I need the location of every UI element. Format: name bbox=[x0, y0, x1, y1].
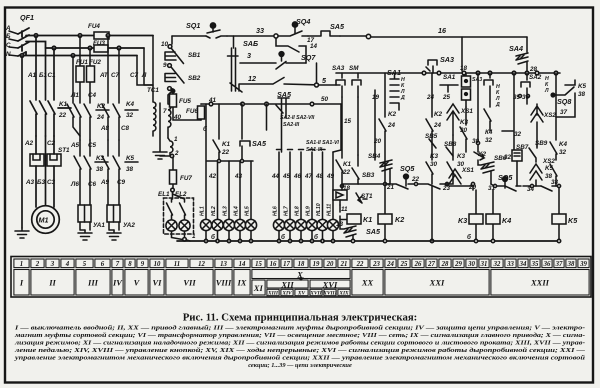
svg-text:QF1: QF1 bbox=[20, 13, 34, 22]
svg-text:управление электромагнитом мех: управление электромагнитом механического… bbox=[14, 355, 586, 362]
wire 12 bbox=[239, 78, 315, 92]
svg-text:7: 7 bbox=[116, 261, 120, 268]
svg-text:30: 30 bbox=[430, 161, 438, 168]
pedal SA5 bottom bbox=[340, 223, 356, 241]
svg-text:K3: K3 bbox=[430, 153, 439, 160]
svg-text:38: 38 bbox=[578, 91, 586, 98]
svg-text:K3: K3 bbox=[460, 119, 469, 126]
node 5 bbox=[315, 63, 341, 87]
svg-text:SA5: SA5 bbox=[252, 139, 267, 148]
svg-text:АТ: АТ bbox=[99, 72, 109, 79]
phase input B bbox=[9, 39, 18, 41]
svg-text:FU3: FU3 bbox=[93, 40, 105, 47]
caption body bbox=[14, 325, 586, 370]
svg-text:32: 32 bbox=[559, 149, 567, 156]
wire 3 bbox=[240, 62, 306, 64]
svg-text:I — выключатель вводной; II, X: I — выключатель вводной; II, XX — привод… bbox=[14, 325, 585, 332]
breaker QF1 bbox=[18, 28, 29, 56]
zone number cell 38 bbox=[566, 259, 576, 268]
button SB9 bbox=[529, 146, 537, 162]
svg-text:33: 33 bbox=[506, 261, 514, 268]
zone number cell 11 bbox=[166, 259, 188, 268]
svg-text:38: 38 bbox=[126, 166, 134, 173]
node junction 33 bbox=[274, 34, 278, 38]
zone number cell 17 bbox=[281, 259, 292, 268]
zone number cell 1 bbox=[14, 259, 29, 268]
svg-text:9: 9 bbox=[163, 62, 167, 69]
contact K4 32 right bbox=[550, 73, 557, 160]
svg-text:SQ7: SQ7 bbox=[301, 53, 316, 62]
svg-text:K3: K3 bbox=[458, 216, 467, 225]
zone cell IV bbox=[112, 270, 123, 296]
svg-text:SA5: SA5 bbox=[330, 22, 345, 31]
svg-text:38: 38 bbox=[96, 166, 104, 173]
svg-text:HL7: HL7 bbox=[284, 205, 290, 216]
fuse FU2 bbox=[87, 48, 95, 103]
svg-text:10: 10 bbox=[161, 41, 169, 48]
svg-text:HL6: HL6 bbox=[273, 206, 279, 216]
svg-text:38: 38 bbox=[551, 179, 559, 186]
transformer TC1 secondary bbox=[168, 91, 172, 138]
svg-text:SA5: SA5 bbox=[277, 90, 292, 99]
zone number cell 4 bbox=[61, 259, 74, 268]
svg-text:K2: K2 bbox=[388, 111, 397, 118]
svg-text:8: 8 bbox=[128, 261, 132, 268]
contactor K1 main contacts bbox=[30, 101, 71, 136]
zone cell VII bbox=[166, 270, 213, 296]
svg-text:14: 14 bbox=[310, 43, 318, 50]
wire HL6 bbox=[277, 150, 282, 220]
svg-text:50: 50 bbox=[321, 96, 329, 103]
wire HL8 bbox=[299, 150, 304, 220]
svg-text:XS1: XS1 bbox=[461, 167, 474, 174]
wire HL11 bbox=[332, 152, 334, 219]
zone number cell 30 bbox=[466, 259, 477, 268]
zone number cell 20 bbox=[324, 259, 336, 268]
button SB3 bbox=[342, 155, 359, 184]
svg-text:XVII: XVII bbox=[309, 291, 322, 297]
svg-text:K1: K1 bbox=[222, 141, 231, 148]
svg-text:2: 2 bbox=[174, 150, 179, 157]
contact K3 30 a bbox=[447, 135, 454, 184]
node 29 bbox=[449, 182, 475, 190]
transformer TC1 primary bbox=[144, 85, 156, 136]
svg-text:секции; 1...39 — цепи электрич: секции; 1...39 — цепи электрические bbox=[248, 362, 352, 369]
wire HL3 bbox=[228, 161, 230, 219]
zone number cell 9 bbox=[137, 259, 148, 268]
svg-text:K2: K2 bbox=[395, 215, 404, 224]
contactor K2 main contacts bbox=[74, 104, 109, 140]
contactor K4 main contacts bbox=[102, 104, 138, 140]
svg-text:A2: A2 bbox=[24, 140, 34, 147]
lamp EL2 bbox=[179, 220, 190, 231]
ground YA2 bbox=[107, 230, 121, 240]
transformer T1 lighting winding bbox=[168, 138, 173, 156]
svg-text:6: 6 bbox=[101, 261, 105, 268]
labels right control bbox=[425, 65, 587, 241]
svg-text:32: 32 bbox=[504, 154, 512, 161]
svg-text:VIII: VIII bbox=[216, 278, 232, 288]
svg-text:SQ8: SQ8 bbox=[557, 97, 571, 106]
svg-text:24: 24 bbox=[426, 94, 435, 101]
lamp HL10 bbox=[317, 219, 328, 241]
wire SA3 down pair bbox=[342, 97, 358, 158]
wire HL7 bbox=[288, 150, 293, 220]
svg-text:K1: K1 bbox=[343, 161, 352, 168]
svg-text:36: 36 bbox=[543, 261, 551, 268]
selector SA6 column bbox=[228, 36, 243, 92]
svg-text:24: 24 bbox=[386, 261, 394, 268]
fuse FU4 bbox=[94, 32, 109, 39]
node junction 16 bbox=[366, 34, 370, 38]
zone number cell 10 bbox=[150, 259, 164, 268]
svg-text:C6: C6 bbox=[88, 181, 97, 188]
svg-text:M1: M1 bbox=[39, 216, 49, 225]
lamp switch EL2 bbox=[173, 194, 186, 220]
svg-text:30: 30 bbox=[472, 138, 480, 145]
svg-text:SB8: SB8 bbox=[444, 141, 457, 148]
svg-text:SB5: SB5 bbox=[425, 133, 438, 140]
svg-text:1: 1 bbox=[192, 233, 196, 240]
node 2 ground link bbox=[160, 154, 174, 157]
zone number cell 22 bbox=[352, 259, 368, 268]
svg-text:SB1: SB1 bbox=[188, 52, 201, 59]
svg-text:C8: C8 bbox=[121, 125, 130, 132]
selector contact SA3 left bbox=[336, 73, 345, 97]
zone cell VI bbox=[150, 270, 164, 296]
svg-text:XS2: XS2 bbox=[543, 112, 556, 119]
wire EL to bus bbox=[172, 231, 191, 241]
wire C7 drop bbox=[137, 36, 153, 86]
zone cell XII bbox=[267, 280, 308, 288]
svg-text:XIX: XIX bbox=[338, 291, 349, 297]
zone cell XX bbox=[352, 270, 383, 296]
wire A2-A3 bbox=[36, 136, 54, 207]
svg-text:HL10: HL10 bbox=[316, 203, 322, 216]
svg-text:C: C bbox=[6, 42, 11, 49]
svg-text:ST1: ST1 bbox=[58, 147, 70, 154]
svg-text:20: 20 bbox=[373, 138, 382, 145]
lamp HL9 bbox=[306, 219, 317, 241]
svg-text:SA1-II SA1-VI: SA1-II SA1-VI bbox=[306, 140, 339, 146]
svg-text:35: 35 bbox=[531, 261, 539, 268]
thermal contact ST1 bbox=[356, 193, 367, 203]
zone number cell 25 bbox=[398, 259, 410, 268]
zone number cell 2 bbox=[31, 259, 44, 268]
svg-text:19: 19 bbox=[372, 94, 380, 101]
svg-text:K5: K5 bbox=[126, 155, 135, 162]
wire C1 drop bbox=[53, 48, 55, 100]
motor M1 bbox=[32, 206, 60, 234]
svg-text:18: 18 bbox=[298, 261, 305, 268]
svg-text:21: 21 bbox=[340, 261, 348, 268]
plug XS1 lower bbox=[449, 169, 461, 184]
selector SA1 bbox=[390, 74, 399, 110]
switch SQ7 branch bbox=[276, 38, 306, 63]
svg-text:36: 36 bbox=[522, 94, 530, 101]
svg-text:18: 18 bbox=[460, 65, 468, 72]
svg-text:C1: C1 bbox=[48, 72, 57, 79]
svg-text:SA2: SA2 bbox=[529, 74, 542, 81]
zone cell II bbox=[31, 270, 74, 296]
svg-text:24: 24 bbox=[387, 122, 396, 129]
labels lamp section bbox=[163, 97, 339, 241]
phase input A bbox=[9, 31, 18, 34]
svg-text:SQ1: SQ1 bbox=[186, 21, 200, 30]
labels power section bbox=[5, 13, 196, 240]
svg-text:41: 41 bbox=[208, 97, 217, 104]
pedal SB6 bbox=[478, 160, 494, 184]
zone number cell 12 bbox=[190, 259, 213, 268]
zone cell XVIII bbox=[324, 289, 336, 295]
node bus junctions bbox=[20, 34, 121, 58]
svg-text:магнит муфты сортовой секции;: магнит муфты сортовой секции; VI — транс… bbox=[14, 332, 585, 339]
main control bus 73 bbox=[336, 71, 560, 75]
svg-text:C5: C5 bbox=[88, 142, 97, 149]
svg-text:34: 34 bbox=[527, 186, 535, 193]
zone cell XVI bbox=[310, 280, 350, 288]
svg-text:VI: VI bbox=[153, 278, 163, 288]
svg-text:29: 29 bbox=[468, 184, 477, 191]
wire drop 341 bbox=[333, 104, 341, 152]
svg-text:20: 20 bbox=[326, 261, 334, 268]
wire to YA2 bbox=[108, 140, 119, 156]
svg-text:31: 31 bbox=[488, 185, 496, 192]
svg-text:K4: K4 bbox=[126, 101, 135, 108]
svg-text:K3: K3 bbox=[457, 153, 466, 160]
svg-text:FU5: FU5 bbox=[179, 98, 191, 105]
wire bus phase2 bbox=[26, 42, 144, 49]
zone cell X bbox=[252, 270, 350, 279]
svg-text:HL1: HL1 bbox=[200, 206, 206, 216]
svg-text:C7: C7 bbox=[111, 72, 120, 79]
contact K5 38 right bbox=[550, 164, 557, 186]
wire k3 chain bbox=[426, 144, 433, 184]
contactor K5 main contacts bbox=[102, 156, 138, 205]
node EL feed bbox=[171, 188, 175, 192]
svg-text:K4: K4 bbox=[502, 216, 511, 225]
control bus 41 bbox=[201, 102, 341, 106]
svg-text:SB7: SB7 bbox=[516, 144, 529, 151]
connector column SA3 boxed bbox=[462, 73, 471, 107]
zone number cell 39 bbox=[578, 259, 589, 268]
svg-text:SQ5: SQ5 bbox=[498, 173, 513, 182]
zone number cell 21 bbox=[338, 259, 350, 268]
wire A1 drop bbox=[35, 36, 37, 101]
wire 42-43 link bbox=[207, 159, 253, 162]
svg-text:22: 22 bbox=[356, 261, 364, 268]
svg-text:A9: A9 bbox=[100, 179, 110, 186]
svg-text:IX: IX bbox=[237, 278, 247, 288]
pedal SB4 bbox=[358, 90, 392, 184]
fuse FU1 bbox=[76, 36, 84, 104]
svg-text:19: 19 bbox=[313, 261, 320, 268]
wire HL2 bbox=[217, 161, 219, 219]
svg-text:XIV: XIV bbox=[281, 291, 292, 297]
svg-text:Л1: Л1 bbox=[70, 92, 79, 99]
svg-text:ление педалью; XIV, XVIII — уп: ление педалью; XIV, XVIII — управление к… bbox=[14, 347, 586, 354]
svg-text:24: 24 bbox=[433, 122, 442, 129]
svg-text:III: III bbox=[87, 278, 99, 288]
bottom bus 6 bbox=[177, 239, 560, 242]
contact K1 22 aux bbox=[213, 104, 220, 161]
plug XS2 lower bbox=[530, 164, 542, 186]
lamp EL1 bbox=[166, 220, 177, 231]
svg-text:XIII: XIII bbox=[267, 291, 279, 297]
zone number cell 14 bbox=[234, 259, 250, 268]
svg-text:HL3: HL3 bbox=[223, 206, 229, 216]
svg-text:SB3: SB3 bbox=[362, 172, 375, 179]
svg-text:22: 22 bbox=[342, 169, 351, 176]
svg-text:32: 32 bbox=[126, 112, 134, 119]
svg-text:K1: K1 bbox=[59, 101, 68, 108]
svg-text:39: 39 bbox=[579, 261, 587, 268]
svg-text:SA3: SA3 bbox=[440, 55, 454, 64]
svg-text:11: 11 bbox=[174, 261, 180, 268]
selector SA1 second dash bbox=[440, 85, 458, 92]
wire HL9 bbox=[310, 150, 315, 220]
svg-text:SA1: SA1 bbox=[443, 74, 456, 81]
svg-text:22: 22 bbox=[58, 112, 67, 119]
switch SQ5 mid bbox=[385, 174, 414, 189]
svg-text:K4: K4 bbox=[559, 141, 568, 148]
wire B1 drop bbox=[45, 48, 47, 100]
zone number cell 35 bbox=[530, 259, 540, 268]
node 31 bbox=[491, 184, 497, 188]
svg-text:A3: A3 bbox=[25, 179, 35, 186]
zone cell IX bbox=[234, 270, 250, 296]
contact K2 24 mid bbox=[426, 73, 433, 144]
wire 16 drop right bbox=[526, 37, 528, 52]
circuit zone table bbox=[11, 257, 591, 298]
lamp HL3 bbox=[223, 219, 234, 241]
zone number cell 31 bbox=[479, 259, 489, 268]
zone cell XI bbox=[252, 280, 265, 295]
relay coil K3 bbox=[469, 190, 483, 241]
zone cell V bbox=[125, 270, 148, 296]
svg-text:б: б bbox=[203, 125, 208, 133]
zone number cell 3 bbox=[46, 259, 59, 268]
lamp switch EL1 bbox=[167, 192, 173, 220]
svg-text:Б1: Б1 bbox=[39, 72, 47, 79]
zone number cell 15 bbox=[252, 259, 265, 268]
button SB5 bbox=[429, 139, 436, 148]
svg-text:XVI: XVI bbox=[322, 279, 338, 289]
switch SA5 top bbox=[308, 31, 340, 36]
button SB2 bbox=[165, 68, 184, 84]
node 35 36 bbox=[519, 95, 530, 98]
thermal relay ST1 heater C bbox=[47, 154, 61, 166]
wire HL4 bbox=[239, 161, 241, 219]
svg-text:1: 1 bbox=[20, 261, 23, 268]
svg-text:43: 43 bbox=[234, 173, 243, 180]
node FU5 top bbox=[171, 89, 174, 92]
ground motor bbox=[15, 228, 29, 238]
svg-text:27: 27 bbox=[427, 261, 435, 268]
lamp HL11 bbox=[327, 219, 338, 241]
wire to YA1 bbox=[80, 140, 90, 156]
zone cell VIII bbox=[215, 270, 232, 296]
svg-text:K5: K5 bbox=[578, 83, 587, 90]
transformer TC1 screen ground bbox=[153, 103, 167, 159]
svg-text:5: 5 bbox=[322, 76, 327, 85]
svg-text:21: 21 bbox=[386, 184, 395, 191]
svg-text:XXII: XXII bbox=[530, 278, 550, 288]
svg-text:K2: K2 bbox=[478, 151, 487, 158]
svg-text:HL2: HL2 bbox=[211, 206, 217, 216]
switch SQ8 bbox=[551, 87, 575, 117]
svg-text:17: 17 bbox=[283, 261, 290, 268]
zone number cell 32 bbox=[491, 259, 503, 268]
svg-text:14: 14 bbox=[239, 261, 246, 268]
zone number cell 37 bbox=[554, 259, 564, 268]
electromagnet YA1 bbox=[78, 205, 91, 230]
svg-text:Л: Л bbox=[544, 88, 549, 94]
wire PE drop bbox=[21, 56, 23, 229]
svg-text:47: 47 bbox=[304, 173, 313, 180]
wire drop 266 bbox=[266, 104, 268, 130]
zone cell XIV bbox=[281, 289, 293, 295]
zone number cell 36 bbox=[542, 259, 552, 268]
zone number cell 34 bbox=[518, 259, 528, 268]
fuse FU7 bbox=[170, 157, 177, 190]
contactor K3 main contacts bbox=[74, 156, 108, 205]
svg-text:УА1: УА1 bbox=[93, 222, 105, 229]
lamp HL7 bbox=[284, 219, 295, 241]
lamp HL2 bbox=[212, 219, 223, 241]
wire bus phase3 neutral bbox=[22, 52, 137, 56]
selector column K3 30 bbox=[484, 73, 493, 131]
switch SA5 column bbox=[276, 98, 289, 152]
zone number cell 6 bbox=[95, 259, 110, 268]
node 21 bbox=[383, 182, 386, 185]
svg-text:Рис. 11. Схема принципиальная: Рис. 11. Схема принципиальная электричес… bbox=[183, 312, 418, 324]
contact chain left of K3 bbox=[460, 107, 467, 152]
pedal SA4 bbox=[516, 53, 528, 71]
svg-text:12: 12 bbox=[248, 74, 256, 83]
svg-text:SA2-III: SA2-III bbox=[283, 122, 300, 128]
svg-text:SАБ: SАБ bbox=[243, 39, 258, 48]
button SB1 bbox=[165, 49, 184, 64]
svg-text:HL11: HL11 bbox=[327, 204, 333, 216]
svg-text:23: 23 bbox=[372, 261, 380, 268]
plug XS2 upper bbox=[531, 104, 543, 146]
wire 16 drop left bbox=[461, 37, 463, 71]
svg-text:15: 15 bbox=[344, 118, 352, 125]
lamp HL8 bbox=[295, 219, 306, 241]
svg-text:XVIII: XVIII bbox=[322, 291, 337, 297]
svg-text:3: 3 bbox=[247, 51, 251, 60]
wire 432 to bus bbox=[431, 186, 433, 241]
svg-text:Л6: Л6 bbox=[70, 181, 79, 188]
svg-text:C9: C9 bbox=[117, 179, 126, 186]
svg-text:ST1: ST1 bbox=[361, 193, 373, 200]
thermal relay ST1 heater A bbox=[30, 154, 44, 166]
svg-text:V: V bbox=[134, 278, 141, 288]
labels mid control bbox=[332, 55, 477, 236]
zone number cell 19 bbox=[310, 259, 322, 268]
zone number cell 8 bbox=[125, 259, 135, 268]
svg-text:C7: C7 bbox=[130, 72, 139, 79]
svg-text:22: 22 bbox=[411, 176, 420, 183]
button SB7 bbox=[512, 73, 522, 186]
wire L1 drop bbox=[67, 56, 80, 137]
wire node30 column bbox=[477, 73, 479, 142]
svg-text:A8: A8 bbox=[100, 125, 110, 132]
svg-text:SA4: SA4 bbox=[509, 44, 523, 53]
svg-text:35: 35 bbox=[513, 94, 521, 101]
svg-text:б: б bbox=[281, 233, 286, 241]
